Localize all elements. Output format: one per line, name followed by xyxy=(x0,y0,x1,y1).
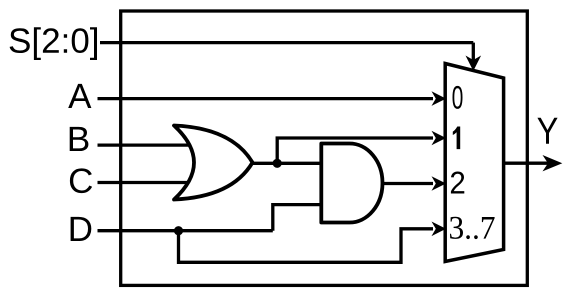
wire OR output to AND gate upper input xyxy=(253,162,322,165)
module boundary box xyxy=(121,11,528,285)
wire from junction up and right to mux input 1 xyxy=(277,138,433,163)
junction dot on OR output xyxy=(273,159,282,168)
multiplexer U1 trapezoid xyxy=(445,64,503,262)
mux pin label 0 xyxy=(453,86,463,109)
wire D jog up to AND gate lower input xyxy=(273,205,322,231)
wire S vertical drop to mux select xyxy=(472,43,475,60)
or-gate (B+C) xyxy=(174,126,253,200)
mux pin label 1 xyxy=(453,127,460,150)
wire S horizontal xyxy=(100,41,473,44)
label C xyxy=(70,168,92,193)
label A xyxy=(68,84,91,108)
mux pin label 3..7 xyxy=(450,217,495,239)
label Y xyxy=(537,118,557,144)
wire D branch down and right to mux input 3..7 xyxy=(179,229,434,262)
arrowhead into mux input 2 xyxy=(432,176,447,191)
arrowhead Y output xyxy=(543,155,563,171)
arrowhead S into mux top xyxy=(466,56,482,72)
and-gate xyxy=(321,144,382,223)
mux pin label 2 xyxy=(451,172,464,194)
arrowhead into mux input 1 xyxy=(432,131,447,146)
label B xyxy=(70,127,89,151)
label D xyxy=(71,217,92,241)
wire A to mux input 0 xyxy=(98,97,434,100)
wire D horizontal xyxy=(98,229,273,232)
arrowhead into mux input 3..7 xyxy=(432,222,447,237)
junction dot on D wire xyxy=(174,226,183,235)
wire B into OR gate xyxy=(98,143,192,146)
wire C into OR gate xyxy=(98,181,190,184)
label S[2:0] xyxy=(10,27,97,60)
wire Y output xyxy=(504,162,548,165)
arrowhead A xyxy=(432,91,447,106)
wire AND output to mux input 2 xyxy=(383,182,433,185)
